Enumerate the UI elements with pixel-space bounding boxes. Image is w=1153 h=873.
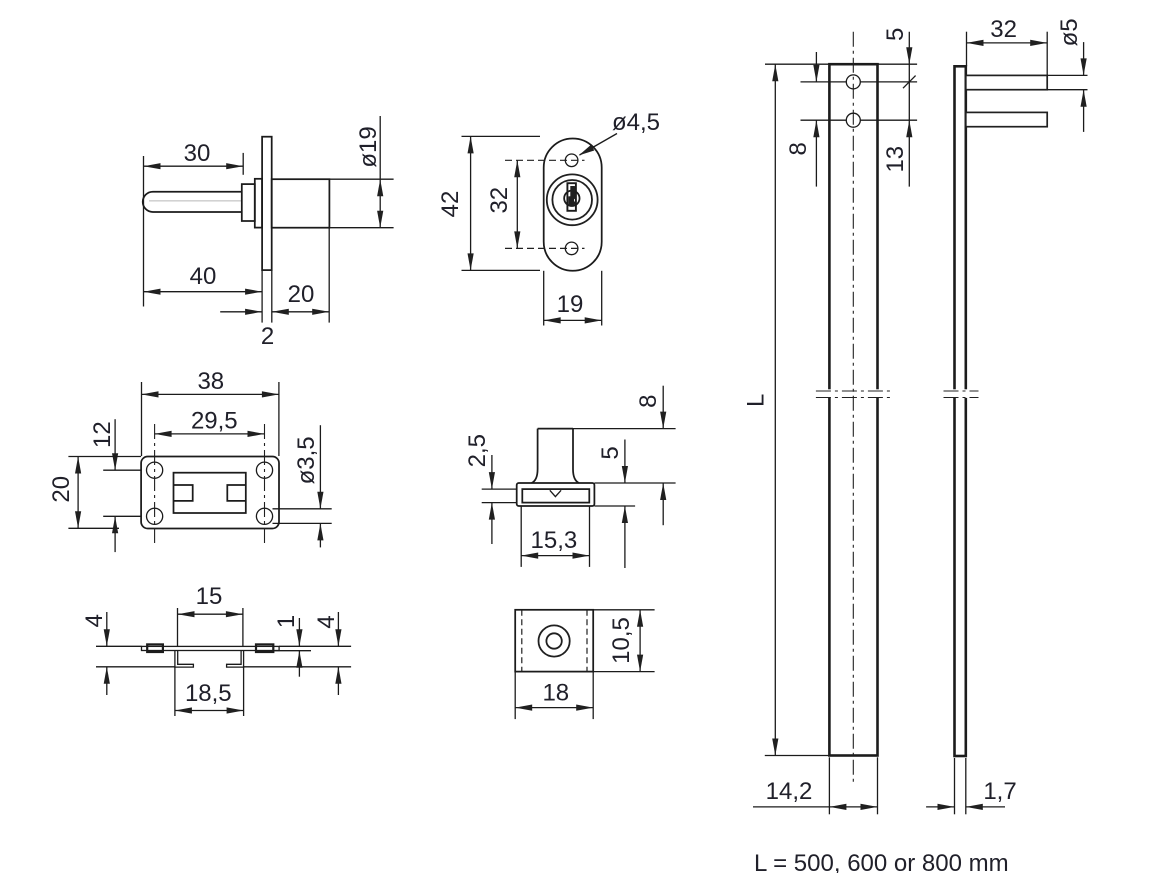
- hole2 extension line right: [860, 119, 917, 121]
- svg-text:15: 15: [196, 583, 223, 610]
- svg-text:ø3,5: ø3,5: [293, 436, 320, 484]
- hole top-right: [256, 462, 272, 478]
- dim 10,5: extension lines: [593, 609, 654, 611]
- dim 38: dimension line: [142, 393, 279, 395]
- dim ø5: extension lines: [1047, 74, 1087, 76]
- svg-text:19: 19: [557, 291, 584, 318]
- svg-text:15,3: 15,3: [531, 527, 578, 554]
- base inner rectangle: [522, 489, 589, 503]
- oval plate: [544, 139, 602, 271]
- bar hole 1: [846, 75, 860, 89]
- key silhouette (filled): [568, 186, 576, 206]
- block outline: [515, 610, 593, 672]
- svg-text:8: 8: [785, 142, 812, 155]
- dim 20: dimension line: [77, 457, 79, 529]
- svg-text:38: 38: [197, 368, 224, 395]
- svg-text:30: 30: [184, 140, 211, 167]
- left end tab: [147, 644, 163, 652]
- dim 4 right: dimension line segments: [337, 612, 339, 646]
- dim 18,5: dimension line: [175, 710, 244, 712]
- pin (plunger): [143, 192, 242, 212]
- dim 5: dimension line segments: [624, 440, 626, 484]
- dim 5: extension line: [594, 505, 635, 507]
- dim 20: dimension line: [272, 311, 329, 313]
- hole top-left: [147, 462, 163, 478]
- hole centerline dashed bottom: [505, 247, 585, 249]
- dim ø5: dimension line segments: [1083, 42, 1085, 75]
- key slot middle circle: [564, 191, 579, 206]
- v-notch marker: [550, 490, 561, 496]
- svg-text:L = 500, 600 or 800 mm: L = 500, 600 or 800 mm: [754, 850, 1009, 873]
- step collar 1: [242, 184, 255, 221]
- dim 8: dimension line segments: [815, 52, 817, 82]
- hole centerline dashed top: [505, 159, 585, 161]
- dim 2,5: dimension line segments: [491, 455, 493, 489]
- svg-text:14,2: 14,2: [766, 778, 813, 805]
- break line upper: [816, 390, 894, 392]
- dim ø3,5: tangent extension lines: [273, 508, 332, 510]
- svg-text:18: 18: [542, 679, 569, 706]
- break line lower right: [944, 397, 979, 399]
- svg-text:L: L: [743, 394, 770, 407]
- dim 20: extension line body right: [328, 229, 330, 323]
- bar hole 2: [846, 113, 860, 127]
- channel left wall and lip: [175, 651, 194, 668]
- dim 10,5: dimension line: [639, 610, 641, 672]
- hole bottom-left: [147, 508, 163, 524]
- hole2 extension line left: [801, 119, 847, 121]
- dim 15: dimension line: [178, 613, 243, 615]
- break line upper right: [944, 390, 979, 392]
- dim 18: dimension line: [515, 707, 593, 709]
- dim 40: dimension line: [144, 291, 263, 293]
- svg-text:2,5: 2,5: [464, 434, 491, 467]
- dim 14,2: dimension line with left tail: [753, 806, 878, 808]
- dim 19: dimension line: [544, 319, 602, 321]
- dim 1,7: extension lines: [954, 758, 956, 814]
- svg-text:40: 40: [190, 263, 217, 290]
- svg-text:ø19: ø19: [355, 126, 382, 167]
- svg-text:4: 4: [313, 615, 340, 628]
- right end tab: [256, 644, 273, 652]
- plate outline: [141, 457, 279, 529]
- svg-text:18,5: 18,5: [185, 680, 232, 707]
- svg-text:20: 20: [48, 476, 75, 503]
- dim 29,5: dimension line: [155, 433, 265, 435]
- pin 2: [966, 112, 1047, 126]
- dim 4 right: extension line: [244, 666, 352, 668]
- dim 38: extension lines: [141, 382, 143, 456]
- svg-text:5: 5: [597, 446, 624, 459]
- cylinder inner circle: [552, 180, 592, 220]
- stem top edge: [538, 428, 573, 430]
- dim 8: dimension line segments: [662, 386, 664, 429]
- svg-text:1: 1: [273, 615, 300, 628]
- screw hole top: [565, 154, 578, 167]
- svg-text:32: 32: [486, 187, 513, 214]
- hole1 extension line right: [860, 81, 917, 83]
- dim 15,3: dimension line: [521, 555, 589, 557]
- dim ø19: dimension line: [379, 116, 381, 228]
- right notch: [227, 485, 246, 501]
- base outline: [517, 483, 595, 506]
- dim 12: dimension line segments: [114, 419, 116, 470]
- center opening rectangle: [174, 473, 246, 513]
- break line lower: [816, 397, 894, 399]
- svg-text:10,5: 10,5: [608, 617, 635, 664]
- svg-text:12: 12: [89, 421, 116, 448]
- dim 1,7: dimension line segments: [926, 806, 954, 808]
- key slot outline: [567, 183, 576, 211]
- pin mid highlight line: [149, 200, 242, 202]
- bar outline: [829, 64, 877, 755]
- leader ø4,5: line: [580, 134, 618, 156]
- svg-text:29,5: 29,5: [191, 408, 238, 435]
- dim 2: left tail with arrow: [220, 311, 262, 313]
- svg-text:1,7: 1,7: [983, 778, 1016, 805]
- dim 1: extension lines: [279, 645, 351, 647]
- strip body: [142, 646, 280, 650]
- svg-text:13: 13: [882, 146, 909, 173]
- dim 32: dimension line: [967, 42, 1048, 44]
- centerline left holes: [154, 424, 156, 545]
- centerline right holes: [264, 424, 266, 545]
- bar top extension right: [878, 63, 918, 65]
- dim 30: dimension line: [144, 165, 244, 167]
- dim 2,5: extension lines: [482, 488, 517, 490]
- dim 30: extension line left: [143, 156, 145, 307]
- svg-text:ø4,5: ø4,5: [612, 109, 660, 136]
- pin 1: [966, 75, 1047, 89]
- dim L: dimension line: [774, 64, 776, 755]
- hole1 extension line left: [801, 81, 847, 83]
- dim 19: extension lines: [543, 271, 545, 326]
- dim 8: extension lines: [573, 428, 676, 430]
- cylinder outer circle: [547, 174, 598, 225]
- stem right side with flare: [573, 429, 579, 483]
- svg-text:ø5: ø5: [1056, 18, 1083, 46]
- leader ø4,5: arrowhead: [579, 145, 595, 156]
- stem left side with flare: [532, 429, 538, 483]
- svg-text:2: 2: [261, 323, 274, 350]
- cylinder body: [272, 179, 330, 228]
- dim 18,5: extension lines: [174, 667, 176, 716]
- dim 15: extension lines: [177, 608, 179, 646]
- dim 32: dimension line: [516, 160, 518, 248]
- dim 42: extension lines: [462, 135, 541, 137]
- side plate outline: [955, 66, 966, 756]
- dim 1: dimension line segments: [298, 618, 300, 646]
- dim 4 left: extension lines: [96, 645, 142, 647]
- dim 20: extension lines: [68, 456, 141, 458]
- svg-text:32: 32: [990, 16, 1017, 43]
- svg-text:20: 20: [288, 281, 315, 308]
- dim 5: oblique tick at hole1: [903, 76, 916, 89]
- dim 18: extension lines: [514, 672, 516, 720]
- dim 2: extension lines under flange: [261, 270, 263, 322]
- outer circle: [539, 625, 570, 656]
- dim 4 left: dimension line segments: [106, 612, 108, 646]
- dim 32: extension lines: [966, 32, 968, 67]
- dim 30: extension line right: [242, 153, 244, 175]
- hole bottom-right: [256, 508, 272, 524]
- step collar 2: [255, 179, 262, 228]
- dim ø3,5: dimension line segments: [319, 425, 321, 509]
- break gap eraser right: [950, 389, 970, 398]
- dashed line right: [586, 610, 588, 672]
- flange plate: [262, 137, 272, 270]
- svg-text:8: 8: [635, 395, 662, 408]
- svg-text:5: 5: [882, 28, 909, 41]
- left notch: [174, 485, 193, 501]
- bar centerline: [852, 32, 854, 782]
- dashed line left: [521, 610, 523, 672]
- dim 5/13: shared dimension line: [908, 32, 910, 187]
- inner circle: [546, 633, 561, 648]
- svg-text:42: 42: [437, 191, 464, 218]
- svg-text:4: 4: [81, 614, 108, 627]
- dim L: extension lines: [765, 63, 829, 65]
- break gap eraser: [824, 389, 883, 398]
- dim 12: extension lines: [103, 469, 140, 471]
- dim ø19: extension lines: [329, 178, 393, 180]
- screw hole bottom: [565, 242, 578, 255]
- dim 42: dimension line: [470, 136, 472, 270]
- dim 14,2: extension lines: [828, 757, 830, 814]
- dim 15,3: extension lines: [520, 506, 522, 567]
- channel right wall and lip: [227, 651, 244, 668]
